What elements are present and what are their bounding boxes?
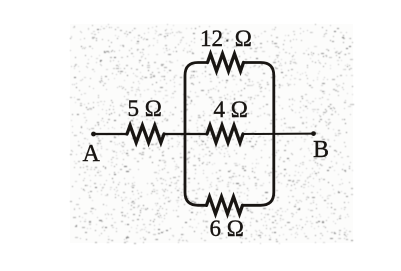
speck between 12 and ohm [226,40,228,42]
parallel-branch loop left half (left rail with rounded corners) [185,63,208,206]
svg-text:B: B [313,137,329,163]
resistor 4 ohm [207,125,243,142]
resistor 6 ohm (bottom branch) [207,197,243,214]
wire A to R-5ohm [94,133,128,135]
svg-text:4 Ω: 4 Ω [214,97,248,122]
wire R-5ohm to R-4ohm (crosses left rail) [164,133,207,135]
node A (terminal dot) [91,132,96,137]
wire R-4ohm to B (crosses right rail) [243,133,314,135]
svg-text:12: 12 [200,26,223,51]
node B (terminal dot) [311,131,316,136]
svg-text:6 Ω: 6 Ω [210,216,244,241]
resistor 12 ohm (top branch) [208,54,244,71]
svg-text:5 Ω: 5 Ω [128,96,162,121]
parallel-branch loop right half (right rail with rounded corners) [243,63,274,206]
svg-text:A: A [83,141,101,167]
resistor 5 ohm [127,125,164,142]
svg-text:Ω: Ω [235,26,252,51]
